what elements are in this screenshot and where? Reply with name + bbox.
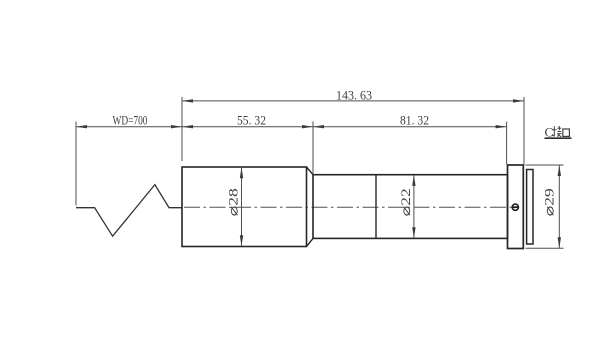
set screw: [512, 204, 518, 210]
label C-mount (C&#25509;&#21475;): [545, 125, 572, 140]
mount flange &#934;29: [508, 165, 524, 249]
dimension line 81.32: [313, 126, 507, 128]
svg-text:55. 32: 55. 32: [237, 113, 266, 128]
dimension &#934;22: [413, 175, 415, 238]
dimension line WD=700: [76, 126, 182, 128]
extension lines &#934;29: [526, 164, 564, 166]
extension line WD left: [75, 122, 77, 206]
glyph kou: [563, 129, 570, 136]
barrel divider: [375, 175, 377, 239]
dimension &#934;29: [558, 165, 560, 248]
wire: object-plane zigzag break line: [76, 185, 183, 237]
lens body &#934;28: [182, 167, 307, 247]
svg-text:⌀22: ⌀22: [398, 188, 413, 216]
svg-text:⌀29: ⌀29: [541, 188, 556, 216]
svg-text:C: C: [545, 125, 554, 140]
centerline (dash-dot axis): [184, 206, 512, 208]
underline: [545, 137, 572, 139]
extension line chamfer end: [312, 122, 314, 175]
chamfer bottom: [307, 238, 314, 246]
dimension line 55.32: [182, 126, 313, 128]
C-mount ring: [527, 170, 533, 245]
svg-text:143. 63: 143. 63: [336, 87, 372, 102]
extension line body left: [181, 97, 183, 161]
dimension &#934;28: [241, 167, 243, 246]
dimension line 143.63: [182, 100, 524, 102]
glyph jie: [552, 126, 562, 137]
extension line flange right: [523, 97, 525, 166]
svg-text:⌀28: ⌀28: [226, 188, 241, 216]
svg-text:81. 32: 81. 32: [400, 113, 429, 128]
chamfer top: [307, 167, 314, 175]
svg-text:WD=700: WD=700: [113, 113, 148, 128]
barrel &#934;22: [313, 175, 508, 239]
extension line flange left: [506, 122, 508, 165]
